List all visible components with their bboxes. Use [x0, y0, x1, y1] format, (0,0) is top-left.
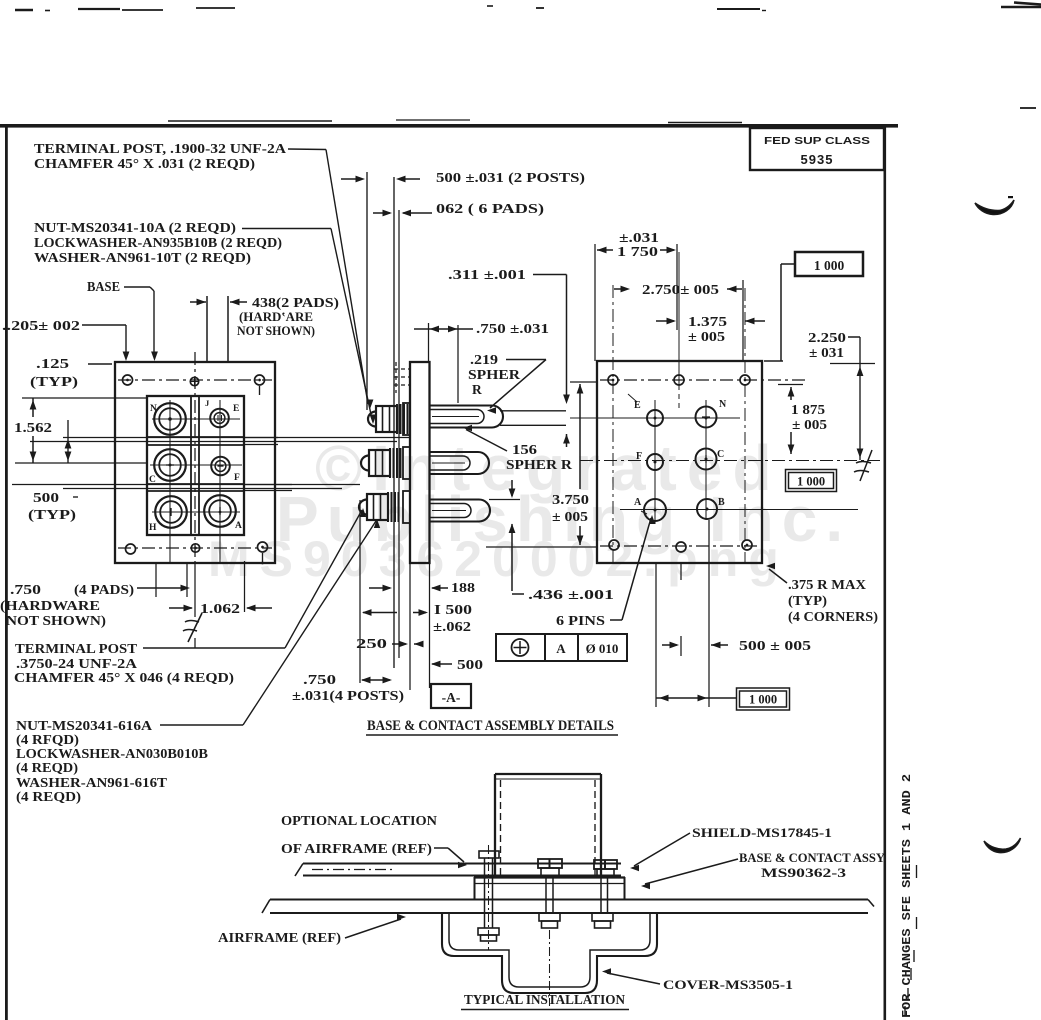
fed sup class box: [750, 128, 884, 170]
terminal post 3 section: [359, 500, 367, 515]
svg-text:NUT-MS20341-10A (2 REQD): NUT-MS20341-10A (2 REQD): [34, 220, 236, 235]
leader .375 r max: [769, 569, 787, 583]
datum -A- box: [431, 684, 471, 708]
dimension 438 extension lines: [206, 296, 208, 361]
leader cover: [607, 973, 660, 984]
section extension line x399: [398, 210, 400, 658]
svg-text:E: E: [233, 404, 239, 414]
leader terminal post .1900-32: [288, 148, 326, 151]
terminal post 2 section: [361, 456, 369, 471]
pin A right view: [644, 499, 666, 521]
svg-text:1 875: 1 875: [791, 402, 825, 417]
leader nut-ms20341-616a: [160, 724, 243, 726]
left view corner hole bottom-right: [258, 542, 268, 552]
scan artifact crescent lower right: [984, 838, 1021, 853]
svg-text:±.031(4 POSTS): ±.031(4 POSTS): [292, 688, 404, 703]
svg-text:BASE & CONTACT ASSEMBLY DETAIL: BASE & CONTACT ASSEMBLY DETAILS: [367, 718, 614, 734]
svg-text:062 ( 6 PADS): 062 ( 6 PADS): [436, 201, 544, 216]
svg-text:J: J: [205, 398, 210, 408]
svg-text:2.250: 2.250: [808, 330, 846, 345]
svg-text:BASE: BASE: [87, 279, 120, 294]
svg-text:1 000: 1 000: [814, 258, 845, 273]
svg-text:.750: .750: [303, 672, 336, 687]
right view vertical centerline right column: [744, 288, 746, 563]
svg-text:N: N: [719, 399, 727, 410]
svg-text:H: H: [149, 523, 157, 533]
right margin dashed line: [916, 865, 918, 878]
contact E left view: [210, 409, 229, 428]
svg-text:OPTIONAL LOCATION: OPTIONAL LOCATION: [281, 813, 437, 828]
svg-text:F: F: [234, 473, 240, 483]
dimension 500 005 bottom: [655, 563, 657, 707]
svg-text:LOCKWASHER-AN935B10B (2 REQD): LOCKWASHER-AN935B10B (2 REQD): [34, 235, 282, 250]
right view corner hole top-left: [608, 375, 618, 385]
centerline symbol right: [860, 450, 872, 481]
svg-text:± 005: ± 005: [688, 329, 725, 344]
svg-text:1.062: 1.062: [200, 602, 240, 617]
leader shield: [634, 833, 690, 866]
terminal post 1 section: [368, 412, 376, 427]
svg-text:N: N: [150, 404, 157, 414]
svg-text:A: A: [556, 641, 566, 656]
svg-text:TYPICAL INSTALLATION: TYPICAL INSTALLATION: [464, 992, 625, 1007]
right view corner hole bottom-left: [609, 540, 619, 550]
svg-text:..205± 002: ..205± 002: [2, 318, 80, 333]
svg-text:MS903620002.png: MS903620002.png: [208, 531, 789, 587]
shield tube: [495, 773, 601, 775]
dimension 1 875: [790, 387, 792, 400]
svg-text:A: A: [634, 497, 642, 508]
contact F left view: [211, 457, 230, 476]
left view corner hole top-right: [255, 375, 265, 385]
svg-text:6 PINS: 6 PINS: [556, 613, 605, 628]
pin B right view: [697, 499, 717, 519]
cover outline inner: [449, 913, 650, 987]
left view contact block: [147, 396, 244, 535]
svg-text:500 ± 005: 500 ± 005: [739, 638, 811, 653]
svg-text:(TYP): (TYP): [30, 374, 78, 389]
dimension .750 4 posts: [361, 677, 371, 684]
leader base and contact assy: [645, 859, 738, 884]
contact A left view: [204, 495, 236, 527]
section extension line x367: [366, 172, 368, 410]
left view lower extension lines: [155, 563, 157, 597]
leader .205: [82, 324, 126, 326]
svg-text:(4 CORNERS): (4 CORNERS): [788, 609, 878, 624]
right view corner hole bottom-right: [742, 540, 752, 550]
svg-text:.219: .219: [470, 352, 498, 367]
svg-text:(4 REQD): (4 REQD): [16, 760, 78, 775]
svg-text:± 031: ± 031: [809, 345, 844, 360]
svg-text:2.750± 005: 2.750± 005: [642, 282, 719, 297]
feature control frame: [496, 634, 627, 661]
svg-text:FED SUP CLASS: FED SUP CLASS: [764, 135, 870, 147]
svg-text:BASE & CONTACT ASSY: BASE & CONTACT ASSY: [739, 851, 885, 865]
middle screw: [538, 859, 562, 868]
svg-text:I 500: I 500: [434, 602, 472, 617]
pin E right view: [647, 410, 663, 426]
leader base: [124, 286, 150, 288]
contact pin 2 section: [429, 452, 489, 474]
left view hole top-center: [190, 377, 198, 385]
airframe plate lower: [270, 898, 868, 900]
svg-text:A: A: [235, 521, 242, 531]
right view hole top-center: [674, 375, 684, 385]
right view outer rectangle: [597, 361, 762, 563]
centerline symbol below left view: [194, 563, 196, 617]
left view contact column centerlines: [169, 400, 171, 563]
svg-text:.3750-24 UNF-2A: .3750-24 UNF-2A: [16, 656, 137, 671]
svg-text:(TYP): (TYP): [788, 593, 827, 608]
contact H left view: [155, 496, 187, 528]
dimension 188: [369, 587, 390, 589]
svg-text:.125: .125: [36, 356, 69, 371]
svg-text:FOR CHANGES SFE SHEETS 1 AND 2: FOR CHANGES SFE SHEETS 1 AND 2: [901, 774, 914, 1018]
left view corner hole top-left: [123, 375, 133, 385]
svg-text:(TYP): (TYP): [28, 507, 76, 522]
left view outer rectangle: [115, 362, 275, 563]
svg-text:(HARDWARE: (HARDWARE: [0, 598, 100, 613]
svg-text:SPHER R: SPHER R: [506, 457, 572, 472]
svg-text:TERMINAL POST, .1900-32 UNF-2A: TERMINAL POST, .1900-32 UNF-2A: [34, 141, 286, 156]
svg-text:NOT SHOWN): NOT SHOWN): [6, 613, 106, 628]
svg-text:.750 ±.031: .750 ±.031: [476, 321, 549, 336]
svg-text:250: 250: [356, 636, 387, 651]
left view vertical centerline: [194, 352, 196, 563]
svg-text:OF AIRFRAME (REF): OF AIRFRAME (REF): [281, 841, 432, 856]
svg-text:MS90362-3: MS90362-3: [761, 866, 846, 880]
frame right border: [884, 126, 887, 1020]
svg-text:500 ±.031 (2 POSTS): 500 ±.031 (2 POSTS): [436, 170, 585, 185]
svg-text:WASHER-AN961-616T: WASHER-AN961-616T: [16, 775, 167, 790]
svg-text:SPHER: SPHER: [468, 367, 520, 382]
left view centerline bottom holes: [118, 547, 272, 549]
basic dimension box 1 000 bottom: [656, 697, 737, 699]
svg-text:188: 188: [451, 580, 475, 595]
basic dimension box 1 000 top: [795, 252, 863, 276]
svg-text:500: 500: [457, 657, 483, 672]
left view hole bottom-center: [191, 544, 199, 552]
svg-text:±.062: ±.062: [433, 619, 471, 634]
pin C right view: [696, 449, 717, 470]
svg-text:±.031: ±.031: [619, 230, 659, 245]
scan artifact dashes top edge: [15, 9, 33, 11]
svg-text:NOT SHOWN): NOT SHOWN): [237, 324, 315, 338]
svg-text:1.375: 1.375: [688, 314, 727, 329]
section plate hidden lines top: [394, 368, 410, 370]
svg-text:SHIELD-MS17845-1: SHIELD-MS17845-1: [692, 825, 832, 840]
cover outline outer: [442, 913, 657, 993]
dimension 500 bottom: [431, 661, 441, 668]
svg-text:± 005: ± 005: [552, 509, 588, 524]
right view centerline top holes: [600, 379, 806, 381]
leader 156 spher r: [466, 430, 507, 452]
right view centerline bottom holes: [600, 545, 758, 547]
svg-text:Ø 010: Ø 010: [586, 641, 619, 656]
svg-text:3.750: 3.750: [552, 492, 589, 507]
right view vertical centerline center column: [678, 252, 680, 385]
channel extension lines right: [244, 437, 278, 439]
svg-text:(4 REQD): (4 REQD): [16, 789, 81, 804]
dimension 1.562: [22, 397, 148, 399]
svg-text:.750: .750: [10, 582, 41, 597]
svg-text:B: B: [718, 497, 725, 508]
leader 6 pins: [610, 619, 622, 621]
svg-text:C: C: [717, 449, 724, 460]
frame top border: [168, 120, 332, 122]
svg-text:1.562: 1.562: [14, 421, 52, 436]
left view corner hole bottom-left: [126, 544, 136, 554]
svg-text:.436 ±.001: .436 ±.001: [528, 587, 614, 602]
base flange section: [474, 876, 625, 878]
svg-text:(4 PADS): (4 PADS): [74, 582, 134, 597]
svg-text:CHAMFER 45° X .031 (2 REQD): CHAMFER 45° X .031 (2 REQD): [34, 156, 255, 171]
svg-text:LOCKWASHER-AN030B010B: LOCKWASHER-AN030B010B: [16, 746, 208, 761]
svg-text:500: 500: [33, 490, 59, 505]
basic dimension box 1 000 middle: [786, 470, 837, 492]
section extension line x360: [359, 500, 361, 683]
leader terminal post .3750-24: [143, 647, 285, 649]
section plate cross-section: [410, 362, 430, 563]
contact C left view: [154, 449, 186, 481]
svg-text:AIRFRAME (REF): AIRFRAME (REF): [218, 930, 341, 945]
svg-text:COVER-MS3505-1: COVER-MS3505-1: [663, 977, 793, 992]
dimension .500 typ arrows: [67, 420, 69, 463]
contact pin 1 section: [429, 406, 503, 428]
right view hole bottom-center: [676, 542, 686, 552]
right screw: [594, 860, 617, 869]
svg-text:E: E: [634, 400, 641, 411]
svg-text:1 000: 1 000: [797, 475, 825, 489]
middle screw centerline: [549, 930, 551, 1006]
dimension 1 500: [363, 612, 397, 614]
dimension 062 6 pads: [373, 212, 390, 214]
svg-text:.375 R MAX: .375 R MAX: [788, 577, 866, 592]
dimension 500 2 posts: [341, 178, 357, 180]
svg-text:NUT-MS20341-616A: NUT-MS20341-616A: [16, 718, 152, 733]
svg-text:WASHER-AN961-10T (2 REQD): WASHER-AN961-10T (2 REQD): [34, 250, 251, 265]
svg-text:CHAMFER 45° X 046 (4 REQD): CHAMFER 45° X 046 (4 REQD): [14, 670, 234, 685]
svg-text:1 000: 1 000: [749, 693, 777, 707]
contact N left view: [154, 403, 186, 435]
svg-text:TERMINAL POST: TERMINAL POST: [15, 641, 137, 656]
section extension line x394: [393, 177, 395, 668]
leader airframe ref: [345, 919, 401, 938]
left view centerline top holes: [118, 379, 272, 381]
svg-text:R: R: [472, 382, 482, 397]
svg-text:-A-: -A-: [442, 690, 461, 705]
left mounting bolt: [479, 851, 499, 858]
svg-text:5935: 5935: [801, 152, 834, 167]
svg-text:.311 ±.001: .311 ±.001: [448, 267, 526, 282]
svg-text:± 005: ± 005: [792, 417, 827, 432]
leader .219 spher r: [506, 359, 546, 361]
leader nut-ms20341-10a: [242, 228, 331, 230]
dimension 1.062: [169, 607, 192, 609]
pin F right view: [647, 454, 663, 470]
right view corner hole top-right: [740, 375, 750, 385]
svg-text:438(2 PADS): 438(2 PADS): [252, 295, 339, 310]
dimension .436: [511, 480, 513, 496]
optional airframe plate upper: [303, 863, 621, 865]
scan artifact crescent upper right: [975, 200, 1014, 215]
right view vertical centerline left column: [612, 285, 614, 563]
svg-text:C: C: [149, 475, 156, 485]
frame left border: [5, 126, 8, 1020]
pin N right view: [696, 407, 717, 428]
contact pin 3 section: [429, 500, 490, 522]
svg-text:(HARDʽARE: (HARDʽARE: [239, 310, 313, 324]
channel extension lines left: [63, 437, 410, 439]
leader optional location: [434, 847, 448, 849]
svg-text:(4 RFQD): (4 RFQD): [16, 732, 79, 747]
svg-text:156: 156: [512, 442, 537, 457]
svg-text:1 750: 1 750: [617, 244, 658, 259]
right view pin row centerlines: [570, 417, 740, 419]
